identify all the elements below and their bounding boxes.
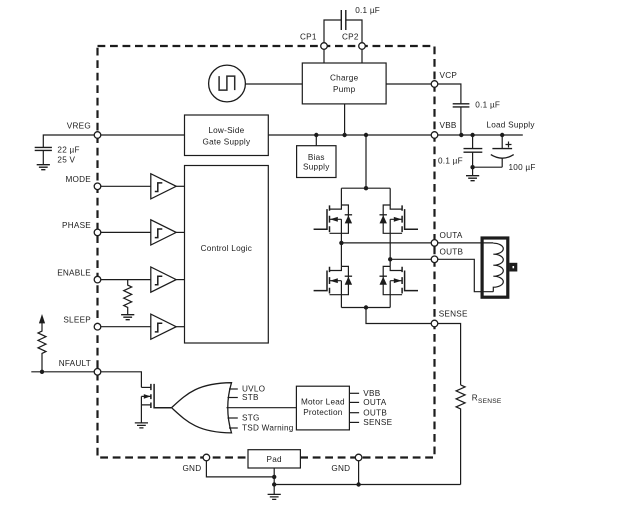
transistor high-side B xyxy=(380,205,419,233)
pin OUTB xyxy=(431,256,438,263)
svg-text:Gate Supply: Gate Supply xyxy=(202,138,250,147)
pin VCP xyxy=(431,81,438,88)
stub OUTB (Motor Lead Protection) xyxy=(349,412,359,414)
svg-text:Control Logic: Control Logic xyxy=(201,244,253,253)
junction VCP capacitor / rail xyxy=(459,133,463,137)
svg-text:0.1 µF: 0.1 µF xyxy=(355,6,380,15)
capacitor charge-pump flying 0.1 uF xyxy=(341,10,346,30)
block Charge Pump xyxy=(302,63,386,104)
junction ground node xyxy=(470,165,474,169)
pin OUTA xyxy=(431,240,438,247)
svg-text:VBB: VBB xyxy=(440,121,457,130)
block Bias Supply xyxy=(297,146,336,178)
pin VBB xyxy=(431,132,438,139)
wire Pad to ground xyxy=(273,468,275,494)
junction OUTB / right half-bridge xyxy=(388,257,392,261)
wire MODE to buffer xyxy=(101,185,151,187)
pin VREG xyxy=(94,132,101,139)
junction charge pump / rail xyxy=(342,133,346,137)
svg-text:TSD Warning: TSD Warning xyxy=(242,424,294,433)
wire Charge Pump bottom to rail xyxy=(344,104,346,135)
pin GND right xyxy=(355,454,362,461)
wire NFAULT external xyxy=(31,371,94,373)
wire GND right to ground bus xyxy=(358,461,360,485)
resistor RSENSE xyxy=(456,385,465,485)
junction GND right / ground bus xyxy=(356,482,360,486)
pin MODE xyxy=(94,183,101,190)
wire NFAULT to open-drain transistor xyxy=(101,372,142,388)
ground (pad) xyxy=(268,494,281,499)
junction bridge bottom rail xyxy=(364,305,368,309)
junction bulk capacitor / rail xyxy=(500,133,504,137)
block Control Logic xyxy=(185,166,269,344)
wire rail to 0.1 uF bypass xyxy=(472,135,474,149)
wire PHASE to buffer xyxy=(101,231,151,233)
svg-text:SENSE: SENSE xyxy=(363,418,392,427)
input stub TSD Warning xyxy=(229,427,238,429)
value label 22 uF / 25 V xyxy=(57,146,79,165)
wire left half-bridge vertical xyxy=(340,188,342,307)
wire bypass capacitor to ground node xyxy=(472,152,474,176)
wire ground node link xyxy=(473,166,503,168)
resistor NFAULT pull-up xyxy=(38,314,46,372)
wire buffer to Control Logic (SLEEP) xyxy=(176,326,184,328)
capacitor 22 uF xyxy=(35,147,52,150)
wire VCP to reservoir capacitor xyxy=(438,84,461,104)
block Low-Side Gate Supply xyxy=(185,115,269,156)
schmitt buffer (SLEEP) xyxy=(151,314,176,339)
wire VCP capacitor to VBB rail xyxy=(460,107,462,135)
pin SLEEP xyxy=(94,323,101,330)
wire bottom ground bus xyxy=(274,484,460,486)
svg-text:Low-Side: Low-Side xyxy=(208,126,244,135)
wire OUTB xyxy=(390,258,434,260)
capacitor VBB bypass 0.1 uF xyxy=(464,149,483,153)
svg-text:Pad: Pad xyxy=(267,455,283,464)
wire ENABLE to buffer xyxy=(101,279,151,281)
wire OUTA xyxy=(341,242,434,244)
transistor Q1 NFAULT open-drain xyxy=(141,384,171,423)
svg-text:VREG: VREG xyxy=(67,121,91,130)
input stub UVLO xyxy=(229,388,238,390)
wire buffer to Control Logic (ENABLE) xyxy=(176,279,184,281)
wire SENSE to RSENSE xyxy=(438,324,461,385)
schmitt buffer (ENABLE) xyxy=(151,267,176,292)
pin CP2 xyxy=(359,43,366,50)
svg-text:OUTB: OUTB xyxy=(363,408,387,417)
wire capacitor to ground xyxy=(42,150,44,164)
transistor low-side A xyxy=(314,266,353,294)
svg-text:OUTA: OUTA xyxy=(363,398,386,407)
stub OUTA (Motor Lead Protection) xyxy=(349,401,359,403)
junction bypass capacitor / rail xyxy=(470,133,474,137)
wire right half-bridge vertical xyxy=(389,188,391,307)
transistor low-side B xyxy=(380,266,419,294)
junction bias supply / rail xyxy=(314,133,318,137)
wire VREG/VBB main rail xyxy=(98,134,435,136)
svg-text:OUTA: OUTA xyxy=(440,231,463,240)
pin CP1 xyxy=(321,43,328,50)
svg-text:ENABLE: ENABLE xyxy=(57,269,91,278)
svg-text:Motor Lead: Motor Lead xyxy=(301,398,345,407)
svg-text:CP1: CP1 xyxy=(300,33,317,42)
junction GND left / pad wire xyxy=(272,475,276,479)
svg-text:SLEEP: SLEEP xyxy=(63,315,91,324)
svg-text:SENSE: SENSE xyxy=(439,309,468,318)
resistor ENABLE pull-down xyxy=(124,280,132,315)
svg-text:OUTB: OUTB xyxy=(440,248,464,257)
svg-text:MODE: MODE xyxy=(65,175,91,184)
svg-text:STG: STG xyxy=(242,414,260,423)
IC boundary dashed box xyxy=(98,46,435,458)
transistor high-side A xyxy=(314,205,353,233)
wire rail to H-bridge feed xyxy=(365,135,367,188)
wire CP1 to flying capacitor xyxy=(324,20,341,43)
svg-text:Pump: Pump xyxy=(333,85,356,94)
capacitor VCP reservoir 0.1 uF xyxy=(453,104,470,107)
pin PHASE xyxy=(94,229,101,236)
capacitor bulk 100 uF polarized xyxy=(491,142,514,168)
svg-text:Charge: Charge xyxy=(330,73,359,82)
svg-text:PHASE: PHASE xyxy=(62,221,91,230)
oscillator xyxy=(209,65,246,102)
svg-text:0.1 µF: 0.1 µF xyxy=(438,156,463,165)
ground (VREG capacitor) xyxy=(37,165,50,170)
input stub STB xyxy=(228,397,238,399)
ground (ENABLE pull-down) xyxy=(121,315,134,320)
motor winding xyxy=(482,238,516,297)
wire H-bridge bottom rail xyxy=(341,307,390,309)
pin GND left xyxy=(203,454,210,461)
wire Charge Pump to VCP pin xyxy=(386,83,434,85)
junction bridge feed / rail xyxy=(364,133,368,137)
wire Bias Supply to rail xyxy=(315,135,317,146)
wire oscillator to Charge Pump xyxy=(245,83,302,85)
svg-text:VCP: VCP xyxy=(440,71,458,80)
svg-text:NFAULT: NFAULT xyxy=(59,359,91,368)
svg-text:Load Supply: Load Supply xyxy=(486,121,535,130)
ground (Q1 source) xyxy=(135,423,148,428)
svg-text:Supply: Supply xyxy=(303,162,330,171)
junction pad / ground bus xyxy=(272,482,276,486)
block Motor Lead Protection xyxy=(296,386,349,430)
junction NFAULT pull-up xyxy=(40,370,44,374)
svg-text:100 µF: 100 µF xyxy=(509,163,536,172)
wire VREG to bypass capacitor xyxy=(43,135,94,147)
pin SENSE xyxy=(431,320,438,327)
svg-text:Protection: Protection xyxy=(303,408,343,417)
pin ENABLE xyxy=(94,276,101,283)
schmitt buffer (MODE) xyxy=(151,174,176,199)
wire SLEEP to buffer xyxy=(101,326,151,328)
stub SENSE (Motor Lead Protection) xyxy=(349,421,359,423)
junction OUTA / left half-bridge xyxy=(339,241,343,245)
svg-text:0.1 µF: 0.1 µF xyxy=(475,101,500,110)
svg-text:Bias: Bias xyxy=(308,153,325,162)
block Pad xyxy=(248,450,300,468)
svg-text:22 µF: 22 µF xyxy=(57,146,79,155)
svg-text:GND: GND xyxy=(182,464,201,473)
stub VBB (Motor Lead Protection) xyxy=(349,392,359,394)
pin NFAULT xyxy=(94,369,101,376)
gate OR fault logic xyxy=(172,383,232,433)
wire bridge to SENSE pin xyxy=(366,308,435,324)
svg-text:VBB: VBB xyxy=(363,389,380,398)
wire buffer to Control Logic (PHASE) xyxy=(176,231,184,233)
wire CP1 to Charge Pump xyxy=(323,49,325,63)
wire buffer to Control Logic (MODE) xyxy=(176,185,184,187)
wire GND left to pad ground xyxy=(206,461,274,477)
wire Motor Lead Protection to OR gate xyxy=(227,407,297,409)
ground (load supply) xyxy=(466,176,479,181)
wire H-bridge top rail xyxy=(341,187,390,189)
wire OUTB to motor xyxy=(438,259,494,291)
wire OUTA to motor xyxy=(438,242,494,244)
schmitt buffer (PHASE) xyxy=(151,220,176,245)
wire VBB to load supply xyxy=(438,134,523,136)
svg-text:CP2: CP2 xyxy=(342,33,359,42)
input stub STG xyxy=(228,417,238,419)
svg-text:STB: STB xyxy=(242,393,259,402)
wire rail to bulk capacitor xyxy=(501,135,503,149)
junction bridge top rail xyxy=(364,186,368,190)
svg-text:GND: GND xyxy=(331,464,350,473)
svg-text:25 V: 25 V xyxy=(57,156,75,165)
wire CP2 to flying capacitor xyxy=(346,20,362,43)
wire CP2 to Charge Pump xyxy=(361,49,363,63)
